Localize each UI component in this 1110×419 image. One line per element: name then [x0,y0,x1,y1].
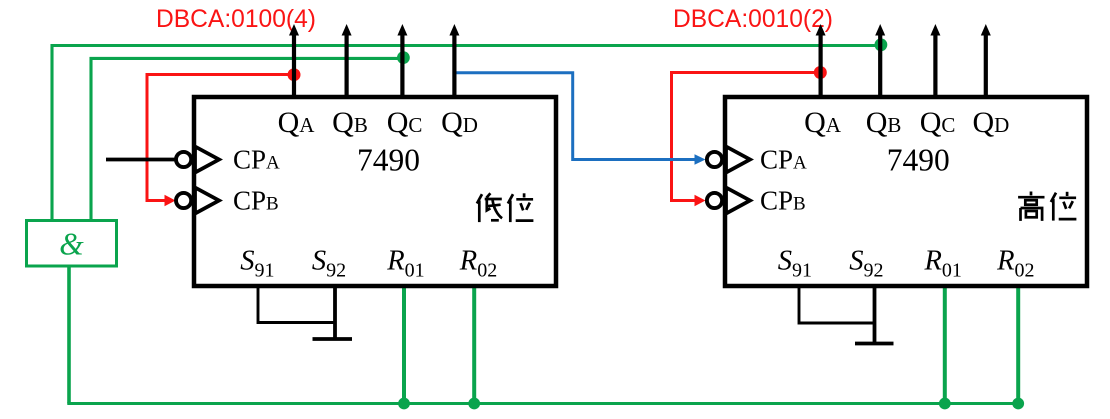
wire: U2 S91 pin down [799,285,875,323]
U1 chinese label "low digit" 低 (first char) [477,193,502,222]
blue wire: U1 QD to U2 CPA [454,73,695,160]
chip U1 (7490 low digit) box [194,97,556,286]
wire: U1 S92 pin down to ground [333,285,337,339]
ground symbol U1 [313,337,353,341]
junction dot: U2 QB tap [875,38,888,51]
U2 CPA clock triangle [726,147,750,173]
ground symbol U2 [855,342,894,346]
U1 chinese label 位 (second char) [508,193,534,222]
red arrowhead into U2 CPB [695,195,706,206]
junction dot: U1 QC tap [397,51,410,64]
wire: external clock input into U1 CPA [106,158,175,162]
U2 pin QC output arrow [930,24,940,97]
U2 chinese label "high digit" 高 (first char) [1018,192,1044,221]
green wire: U2 QB to AND gate input 1 [52,46,880,220]
junction dot: U1 R02 on bus [468,398,480,410]
U1 pin QA output arrow [289,24,299,97]
red wire: U2 QA to U2 CPB [672,73,821,201]
green wire: U1 R01 pin to bus [402,285,406,404]
U1 CPA clock triangle [195,147,219,173]
green wire: U2 R02 pin to bus [1016,285,1020,404]
wire: U2 S92 pin down to ground [873,285,877,344]
junction dot: U2 R02 on bus [1012,398,1024,410]
red arrowhead into U1 CPB [165,195,176,206]
svg-text:7490: 7490 [357,143,420,178]
green wire: U1 QC to AND gate input 2 [91,58,402,219]
green wire: U2 R01 pin to bus [943,285,947,404]
U1 pin QC output arrow [397,24,407,97]
U2 CPB clock triangle [726,188,750,214]
junction dot: U1 R01 on bus [398,398,410,410]
U1 CPB inversion bubble [176,193,191,208]
U2 CPB inversion bubble [707,193,722,208]
U1 pin QB output arrow [342,24,352,97]
U2 pin QA output arrow [816,24,826,97]
svg-text:DBCA:0010(2): DBCA:0010(2) [673,6,833,33]
U2 CPA inversion bubble [707,152,722,167]
AND gate G1 box [27,221,117,267]
U1 CPB clock triangle [195,188,219,214]
U1 pin QD output arrow [449,24,459,97]
junction dot: U1 QA tap [288,68,301,81]
junction dot: U2 R01 on bus [939,398,951,410]
chip U2 (7490 high digit) box [725,97,1087,286]
wire: U1 S91 pin down [258,285,335,323]
U1 CPA inversion bubble [176,152,191,167]
U2 chinese label 位 (second char) [1051,192,1077,221]
junction dot: U2 QA tap [814,66,827,79]
U2 pin QB output arrow [875,24,885,97]
svg-text:&: & [59,227,84,262]
green wire: AND output vertical [67,264,71,404]
red wire: U1 QA to U1 CPB [147,75,294,201]
svg-text:7490: 7490 [887,143,950,178]
green wire: U1 R02 pin to bus [472,285,476,404]
blue arrowhead into U2 CPA [695,154,706,165]
green wire: bottom reset bus [67,402,1018,405]
U2 pin QD output arrow [981,24,991,97]
